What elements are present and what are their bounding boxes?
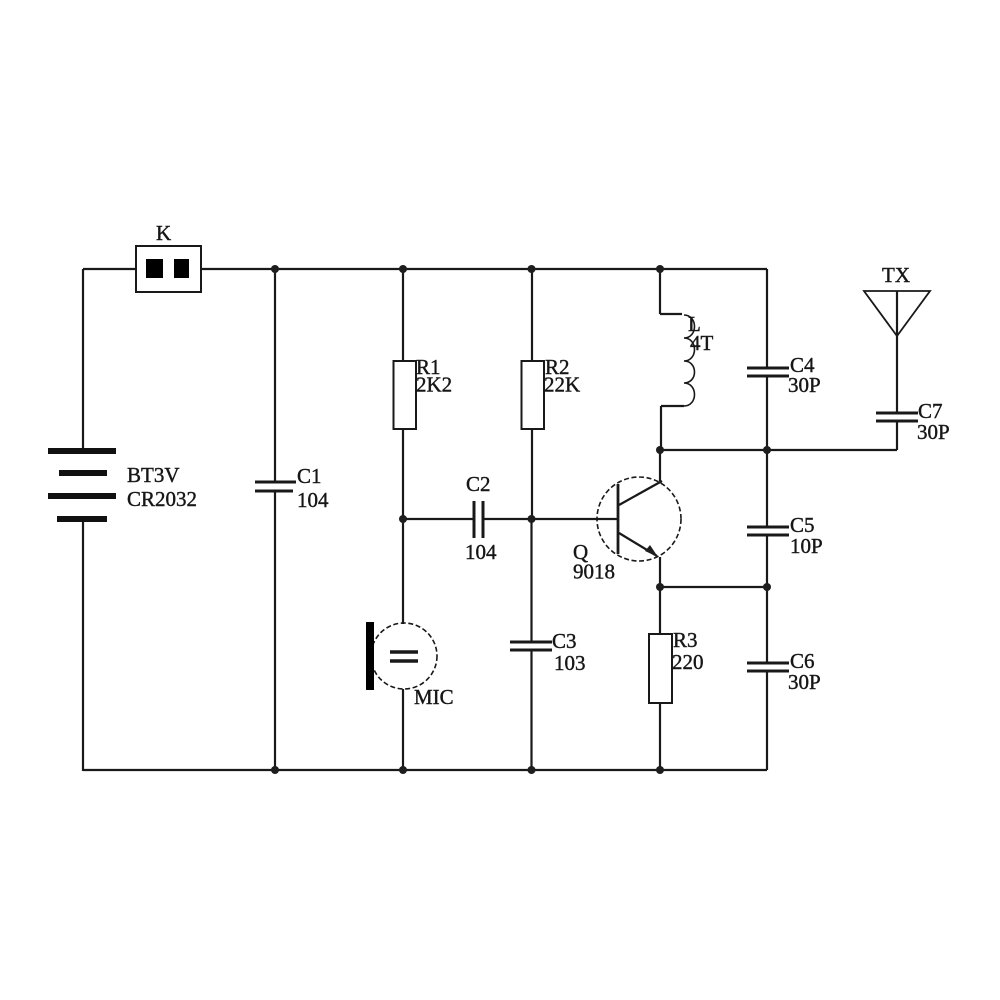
microphone MIC	[366, 519, 437, 770]
switch K	[136, 246, 201, 292]
wire bottom rail	[83, 769, 767, 771]
wire top rail left of switch K	[83, 268, 136, 270]
wire left rail lower (battery negative lead)	[82, 521, 84, 771]
capacitor C4	[747, 368, 789, 376]
wire right rail top segment (corner to C4)	[766, 269, 768, 368]
node dot collector row right rail	[763, 446, 771, 454]
node dot bottom rail C1	[271, 766, 279, 774]
svg-text:K: K	[156, 221, 171, 245]
svg-text:R3: R3	[673, 628, 698, 652]
capacitor C1	[255, 269, 296, 770]
wire right rail C5 to node at y587	[766, 535, 768, 587]
battery BT3V	[48, 451, 116, 519]
node dot base R1/C2	[399, 515, 407, 523]
node dot bottom rail MIC	[399, 766, 407, 774]
svg-text:10P: 10P	[790, 534, 823, 558]
svg-text:2K2: 2K2	[416, 373, 452, 397]
capacitor C6	[747, 663, 789, 671]
svg-text:30P: 30P	[788, 670, 821, 694]
resistor R2	[522, 269, 545, 519]
svg-text:C2: C2	[466, 472, 491, 496]
inductor L 4T	[660, 269, 695, 450]
svg-text:30P: 30P	[917, 420, 950, 444]
wire right rail node to C5	[766, 450, 768, 527]
node dot top rail R2	[528, 265, 536, 273]
node dot top rail L	[656, 265, 664, 273]
resistor R1	[394, 269, 417, 519]
svg-text:22K: 22K	[544, 373, 580, 397]
svg-text:C1: C1	[297, 464, 322, 488]
node dot bottom rail C3	[528, 766, 536, 774]
node dot top rail C1	[271, 265, 279, 273]
wire node row y=587 (emitter to right rail)	[660, 586, 767, 588]
capacitor C3	[510, 519, 552, 770]
svg-text:104: 104	[297, 488, 329, 512]
antenna TX	[864, 291, 930, 413]
svg-text:CR2032: CR2032	[127, 487, 197, 511]
svg-text:C3: C3	[552, 629, 577, 653]
svg-text:220: 220	[672, 650, 704, 674]
svg-text:9018: 9018	[573, 560, 615, 584]
svg-text:BT3V: BT3V	[127, 463, 180, 487]
node dot collector row left	[656, 446, 664, 454]
node dot emitter row right rail	[763, 583, 771, 591]
wire right rail C4 to node at y450	[766, 376, 768, 450]
node dot base R2	[528, 515, 536, 523]
svg-text:30P: 30P	[788, 373, 821, 397]
node dot emitter row left	[656, 583, 664, 591]
resistor R3	[649, 587, 672, 770]
wire left rail upper (battery positive lead)	[82, 269, 84, 449]
svg-text:TX: TX	[882, 263, 910, 287]
svg-text:4T: 4T	[690, 331, 714, 355]
transistor Q 9018	[597, 450, 681, 587]
wire top rail from switch K to top-right corner	[201, 268, 767, 270]
capacitor C2 (base coupling)	[403, 501, 617, 538]
node dot top rail R1	[399, 265, 407, 273]
svg-text:MIC: MIC	[414, 685, 454, 709]
svg-text:104: 104	[465, 540, 497, 564]
wire right rail C6 to bottom corner	[766, 671, 768, 770]
capacitor C7	[876, 413, 918, 450]
node dot bottom rail R3	[656, 766, 664, 774]
wire right rail node to C6	[766, 587, 768, 663]
svg-text:103: 103	[554, 651, 586, 675]
capacitor C5	[747, 527, 789, 535]
wire node row y=450 (collector to C7)	[660, 449, 897, 451]
